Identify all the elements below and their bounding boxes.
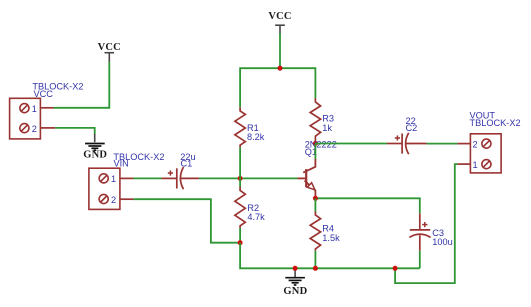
resistor R4 1.5k — [310, 212, 340, 251]
svg-text:100u: 100u — [432, 237, 452, 247]
node return junction — [393, 266, 398, 271]
wire emitter rail to C3 — [315, 198, 419, 213]
svg-text:VIN: VIN — [114, 158, 129, 168]
wire VCC top rail — [240, 68, 315, 107]
svg-text:TBLOCK-X2: TBLOCK-X2 — [470, 118, 521, 128]
svg-text:GND: GND — [283, 286, 307, 297]
svg-text:1: 1 — [473, 160, 478, 170]
wire TBLOCK VCC pin 2 to ground — [55, 128, 94, 134]
svg-text:VCC: VCC — [268, 11, 291, 22]
node ground junction — [293, 266, 298, 271]
svg-text:1k: 1k — [322, 123, 332, 133]
svg-text:2: 2 — [111, 195, 116, 205]
svg-text:4.7k: 4.7k — [247, 212, 265, 222]
wire C3 to bottom rail — [419, 251, 421, 268]
svg-text:C2: C2 — [406, 123, 418, 133]
power flag VCC left — [98, 42, 121, 62]
wire VCC flag to TBLOCK VCC pin 1 — [54, 62, 110, 108]
node base junction — [238, 176, 243, 181]
svg-text:1: 1 — [111, 174, 116, 184]
svg-text:1: 1 — [32, 104, 37, 114]
node R4 bottom junction — [313, 266, 318, 271]
wire collector to C2 — [315, 143, 387, 145]
capacitor C3 100u — [409, 213, 452, 251]
wire R1 to base node — [239, 147, 241, 178]
svg-text:2: 2 — [32, 124, 37, 134]
svg-text:2: 2 — [473, 139, 478, 149]
svg-text:GND: GND — [83, 149, 107, 160]
wire R2 to bottom rail — [239, 228, 241, 243]
wire C1 to base node — [199, 177, 298, 179]
resistor R1 8.2k — [235, 107, 265, 147]
node collector junction — [313, 141, 318, 146]
terminal block TBLOCK-X2 VOUT — [457, 111, 520, 173]
svg-text:VCC: VCC — [98, 42, 121, 53]
wire C2 to VOUT pin 2 — [427, 143, 458, 145]
ground left — [83, 134, 107, 161]
wire VIN pin 1 to C1 — [133, 177, 161, 179]
power flag VCC top — [268, 11, 291, 34]
resistor R3 1k — [310, 98, 334, 143]
ground bottom — [283, 268, 307, 297]
terminal block TBLOCK-X2 VCC — [10, 82, 84, 139]
svg-text:VCC: VCC — [34, 89, 54, 99]
terminal block TBLOCK-X2 VIN — [89, 152, 165, 210]
capacitor C2 22 — [387, 116, 427, 154]
wire VIN pin 2 dogleg — [133, 199, 240, 243]
wire VCC flag top to rail — [279, 34, 281, 69]
svg-text:C1: C1 — [181, 158, 193, 168]
wire emitter node to R4 — [314, 198, 316, 211]
resistor R2 4.7k — [235, 187, 265, 228]
capacitor C1 22u — [162, 152, 200, 189]
wire R4 to bottom rail — [314, 251, 316, 269]
node R2 bottom junction — [238, 240, 243, 245]
wire base node to R2 — [239, 178, 241, 187]
transistor Q1 2N2222 — [298, 140, 337, 199]
node VCC rail junction — [278, 66, 283, 71]
node emitter junction — [313, 196, 318, 201]
svg-text:8.2k: 8.2k — [247, 132, 265, 142]
wire bottom rail — [240, 243, 420, 269]
svg-text:1.5k: 1.5k — [322, 233, 340, 243]
wire VOUT pin 1 return dogleg — [395, 164, 457, 283]
